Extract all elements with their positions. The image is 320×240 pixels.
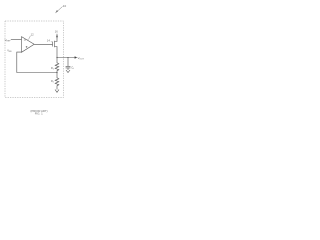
reference numeral 12 label	[31, 32, 35, 36]
capacitor CL plates	[66, 66, 71, 68]
reference numeral 12 leader	[28, 36, 31, 40]
reference numeral 10 leader arrow	[57, 7, 63, 13]
svg-text:2: 2	[53, 81, 54, 83]
node VOUT label	[78, 56, 85, 61]
capacitor CL stub	[67, 58, 69, 67]
node VREF label	[5, 38, 12, 43]
caption PRIOR ART	[30, 109, 47, 113]
svg-text:10: 10	[63, 4, 67, 8]
wire feedback to plus input	[17, 52, 57, 72]
reference numeral 10 arrowhead	[55, 10, 58, 13]
transistor M14 drain arm	[55, 34, 58, 42]
svg-text:1: 1	[53, 68, 54, 70]
wire output node horizontal	[57, 57, 75, 59]
resistor R2	[55, 73, 59, 90]
output arrowhead	[75, 56, 78, 58]
reference numeral 14 leader	[51, 40, 52, 43]
ground arrow below R2	[55, 90, 59, 93]
caption FIG. 1	[35, 112, 43, 116]
reference numeral 10 label	[63, 4, 67, 8]
node VFB label	[7, 48, 12, 53]
op-amp minus input mark	[24, 39, 26, 41]
dashed block boundary	[5, 21, 64, 98]
resistor R1	[55, 58, 59, 73]
capacitor CL label	[71, 65, 74, 69]
junction output node	[56, 57, 57, 58]
resistor R2 label	[51, 79, 54, 83]
supply arrowhead on drain stub	[56, 36, 58, 39]
svg-text:OUT: OUT	[79, 58, 84, 60]
supply VDD label	[55, 29, 58, 33]
junction feedback node	[56, 72, 57, 73]
ground below capacitor	[66, 68, 70, 73]
svg-text:REF: REF	[6, 41, 11, 43]
transistor M14 source arm	[55, 47, 58, 58]
transistor M14 channel bar	[54, 41, 56, 47]
svg-text:FIG. 1: FIG. 1	[35, 112, 43, 116]
svg-text:L: L	[73, 68, 74, 70]
resistor R1 label	[51, 66, 54, 70]
reference numeral 14 label	[47, 38, 51, 42]
wire op-amp output to gate	[34, 43, 52, 45]
transistor M14 gate bar	[52, 42, 54, 47]
op-amp U12 triangle	[22, 37, 35, 53]
wire VREF input	[11, 39, 22, 41]
op-amp plus input mark	[26, 46, 28, 48]
